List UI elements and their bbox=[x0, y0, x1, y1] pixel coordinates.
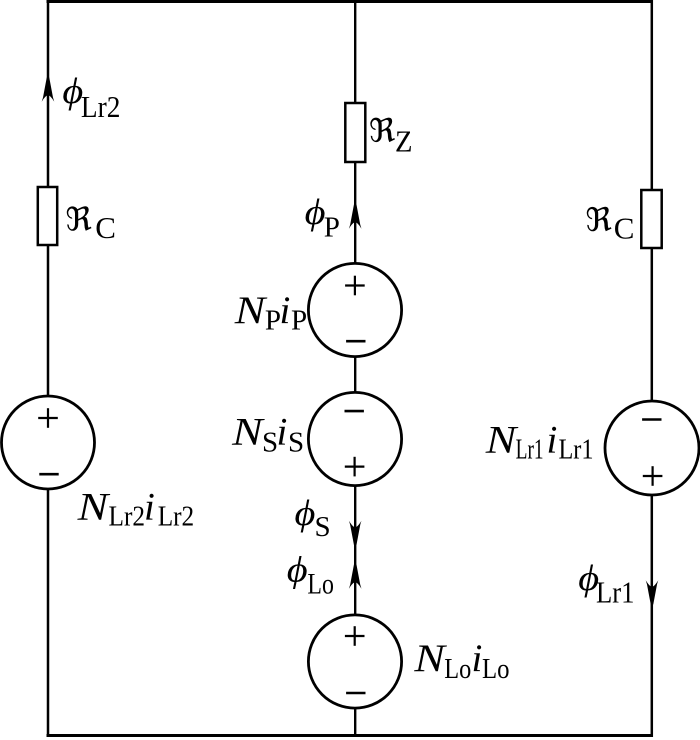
svg-text:Lr1: Lr1 bbox=[559, 434, 594, 466]
svg-text:Lr2: Lr2 bbox=[109, 501, 146, 533]
svg-text:N: N bbox=[231, 410, 265, 453]
svg-text:N: N bbox=[413, 637, 447, 680]
svg-text:i: i bbox=[144, 485, 155, 528]
svg-text:Lr2: Lr2 bbox=[158, 501, 195, 533]
svg-text:C: C bbox=[614, 211, 635, 246]
svg-text:S: S bbox=[315, 511, 331, 543]
svg-text:Lo: Lo bbox=[307, 568, 334, 601]
svg-text:Lr1: Lr1 bbox=[596, 575, 635, 610]
svg-text:P: P bbox=[265, 304, 281, 336]
svg-text:Lo: Lo bbox=[482, 653, 510, 685]
svg-text:S: S bbox=[262, 427, 278, 459]
svg-text:P: P bbox=[291, 304, 307, 336]
svg-text:N: N bbox=[234, 289, 268, 332]
svg-text:N: N bbox=[485, 419, 519, 462]
svg-text:P: P bbox=[324, 212, 340, 244]
svg-text:i: i bbox=[472, 637, 483, 680]
svg-text:C: C bbox=[95, 210, 116, 245]
svg-text:i: i bbox=[547, 419, 558, 462]
svg-text:ϕ: ϕ bbox=[287, 550, 308, 590]
svg-text:Lo: Lo bbox=[444, 653, 471, 685]
svg-text:ϕ: ϕ bbox=[295, 494, 316, 534]
svg-text:ϕ: ϕ bbox=[305, 193, 326, 233]
svg-text:i: i bbox=[280, 289, 291, 332]
svg-text:S: S bbox=[288, 427, 304, 459]
svg-text:Lr2: Lr2 bbox=[81, 89, 121, 124]
svg-text:Lr1: Lr1 bbox=[516, 434, 544, 466]
svg-text:N: N bbox=[77, 485, 111, 528]
svg-text:Z: Z bbox=[395, 124, 413, 159]
